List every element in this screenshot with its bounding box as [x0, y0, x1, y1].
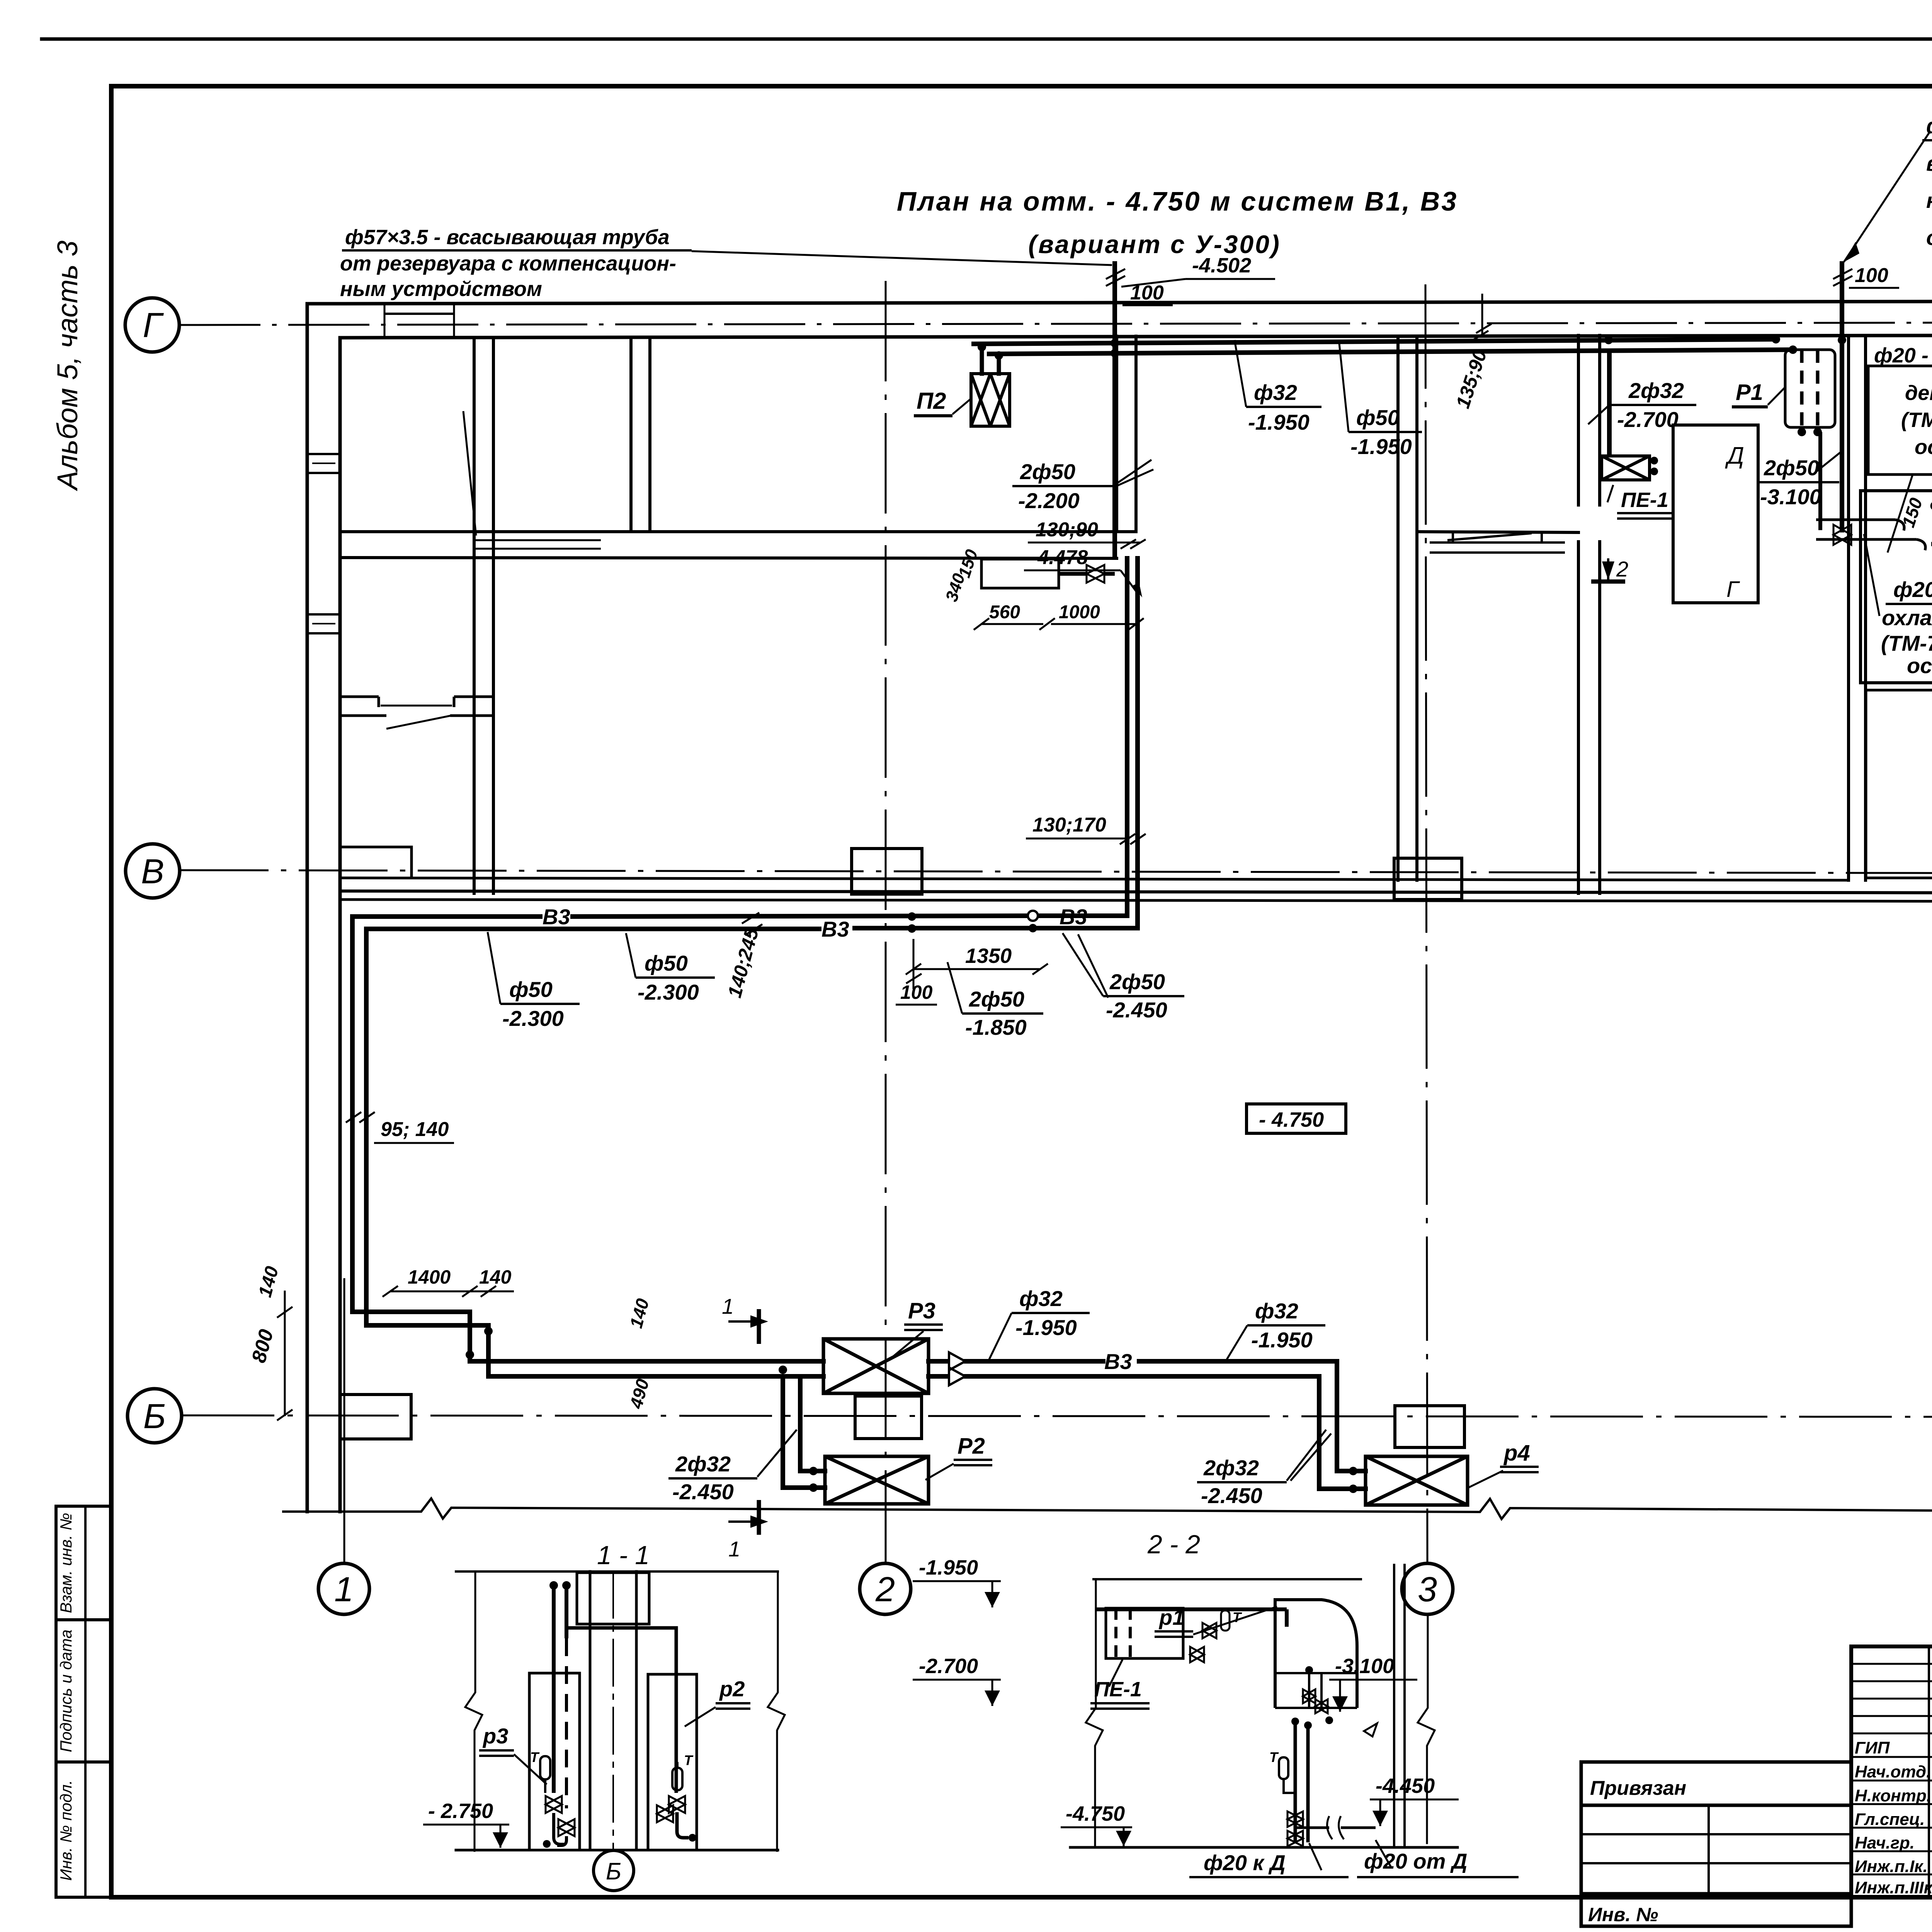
section marker 2 lower [1591, 558, 1625, 582]
svg-text:2ф32: 2ф32 [675, 1452, 731, 1476]
staff rows [1851, 1756, 1932, 1758]
left dim line with break [465, 1571, 482, 1851]
column on left wall at Б [340, 1395, 411, 1439]
svg-text:В3: В3 [821, 917, 849, 941]
left margin inventory table [56, 1506, 111, 1897]
svg-text:на рельеф - 2.500 с компенсаци: на рельеф - 2.500 с компенсаци- [1926, 188, 1932, 213]
svg-text:План на отм. - 4.750 м систем: План на отм. - 4.750 м систем В1, В3 [897, 186, 1458, 216]
door swing a2 [386, 716, 451, 729]
svg-text:140: 140 [479, 1266, 512, 1288]
svg-text:В3: В3 [1104, 1349, 1132, 1374]
leader to right riser [1844, 131, 1930, 262]
axis bubble В [126, 844, 180, 898]
svg-text:Инж.п.Iк.: Инж.п.Iк. [1855, 1857, 1928, 1876]
axis bubble 3 [1402, 1563, 1453, 1614]
P4 feed risers [1337, 1361, 1366, 1471]
svg-text:(ТМ-7, альбом 7): (ТМ-7, альбом 7) [1881, 631, 1932, 655]
svg-text:Н.контр.: Н.контр. [1855, 1786, 1931, 1805]
window detail in bottom wall of room a [463, 411, 601, 549]
svg-text:1: 1 [728, 1537, 740, 1561]
svg-text:Г: Г [1726, 577, 1740, 602]
svg-text:-4.502: -4.502 [1192, 254, 1251, 277]
bottom break line of plan [282, 1498, 1932, 1520]
svg-text:2ф50: 2ф50 [1109, 969, 1165, 994]
detail near riser bottom [981, 559, 1115, 588]
svg-text:ф50: ф50 [1356, 405, 1400, 430]
column axis 3 / Б [1395, 1406, 1464, 1447]
pipe down from P1 [1818, 432, 1822, 530]
svg-text:Р3: Р3 [908, 1298, 935, 1323]
svg-text:Привязан: Привязан [1590, 1777, 1686, 1799]
left wall line with break [1086, 1579, 1103, 1847]
svg-text:дения дизеля: дения дизеля [1905, 381, 1932, 405]
svg-text:-4.750: -4.750 [1066, 1802, 1125, 1825]
svg-text:-1.950: -1.950 [1350, 434, 1412, 459]
axis bubble 1 [318, 1563, 369, 1614]
svg-text:ПЕ-1: ПЕ-1 [1094, 1678, 1142, 1701]
svg-text:Р2: Р2 [957, 1434, 985, 1459]
svg-text:ось - 4.450: ось - 4.450 [1915, 435, 1932, 459]
svg-text:2ф50: 2ф50 [1020, 459, 1075, 484]
svg-text:Нач.отд.: Нач.отд. [1855, 1762, 1931, 1781]
svg-text:-1.950: -1.950 [1251, 1328, 1313, 1352]
svg-text:Инв. №: Инв. № [1588, 1904, 1658, 1925]
axis bubble Б [128, 1389, 182, 1443]
window sill in top wall room a [384, 304, 454, 338]
svg-text:-1.950: -1.950 [919, 1556, 978, 1579]
B3 pipe A left riser down [350, 917, 355, 1312]
-4.750 boxed level mark [1247, 1104, 1346, 1133]
svg-text:100: 100 [1855, 264, 1888, 287]
svg-text:В: В [141, 852, 164, 891]
riser pipe B1 at axis2 area [1112, 264, 1117, 558]
left T thermometer [540, 1756, 550, 1793]
B3 pipe B riser up [1135, 558, 1140, 928]
PE-1 unit section [1106, 1608, 1183, 1658]
svg-text:1: 1 [722, 1294, 734, 1318]
svg-text:-2.300: -2.300 [638, 980, 699, 1004]
section marker 1 bottom [728, 1500, 759, 1535]
svg-text:Г: Г [143, 306, 164, 345]
svg-text:от резервуара с компенсацион-: от резервуара с компенсацион- [340, 252, 676, 275]
partition wall b [629, 338, 633, 532]
svg-text:р3: р3 [482, 1724, 508, 1748]
ticks on risers near 130 [1121, 539, 1146, 549]
P2 unit stub 2 [997, 356, 1001, 374]
pipes down from tank [1295, 1723, 1308, 1842]
svg-text:ным устройством: ным устройством [340, 277, 542, 301]
partition wall a [473, 338, 476, 893]
floor line [456, 1849, 778, 1852]
svg-text:-2.450: -2.450 [672, 1480, 734, 1504]
svg-text:в дождевую канализацию или: в дождевую канализацию или [1926, 151, 1932, 175]
svg-text:- 2.750: - 2.750 [428, 1799, 493, 1823]
svg-text:Т: Т [530, 1749, 540, 1765]
svg-text:ГИП: ГИП [1855, 1738, 1890, 1757]
left wall inner face [338, 338, 342, 1512]
right wall double [1393, 1565, 1395, 1847]
left valves [546, 1796, 575, 1845]
svg-text:Б: Б [606, 1858, 621, 1885]
left wall outer face [306, 304, 309, 1512]
svg-text:онным устройством: онным устройством [1926, 225, 1932, 250]
svg-text:Нач.гр.: Нач.гр. [1855, 1833, 1915, 1852]
P2 unit stub 1 [980, 348, 984, 374]
valves on down pipes [1287, 1811, 1303, 1846]
svg-text:Взам. инв. №: Взам. инв. № [57, 1513, 75, 1613]
staff table thin top rows [1851, 1663, 1932, 1665]
leader inside box [1888, 474, 1913, 553]
B3 pipe A bottom jog [352, 1312, 823, 1361]
svg-text:ф20 от Д: ф20 от Д [1364, 1849, 1467, 1873]
right dim line with break [768, 1571, 785, 1851]
svg-text:ф50: ф50 [645, 951, 688, 975]
svg-text:2ф50: 2ф50 [969, 987, 1024, 1011]
annotation box on uzel okhl [1868, 366, 1932, 474]
svg-text:-1.950: -1.950 [1015, 1315, 1077, 1340]
pump P2 [825, 1456, 929, 1504]
svg-text:ПЕ-1: ПЕ-1 [1621, 488, 1668, 512]
section marker 2 upper [1931, 544, 1932, 571]
svg-text:Гл.спец.: Гл.спец. [1855, 1810, 1925, 1829]
column axis 2 / Б [855, 1396, 922, 1439]
svg-text:-3.100: -3.100 [1760, 485, 1821, 509]
svg-text:В3: В3 [1060, 905, 1087, 929]
column lines [589, 1571, 592, 1850]
axis 3 line [1425, 284, 1427, 1563]
sheet outer top edge [42, 37, 1932, 41]
pump P3 [823, 1339, 929, 1393]
window marks in left wall [307, 454, 340, 633]
right dim line [1418, 1615, 1435, 1843]
svg-text:р2: р2 [719, 1677, 745, 1701]
top wall outer face [336, 301, 1932, 304]
ceiling line [1094, 1578, 1361, 1580]
svg-text:-2.450: -2.450 [1201, 1483, 1262, 1508]
svg-text:Т: Т [684, 1752, 694, 1768]
svg-text:130;170: 130;170 [1032, 814, 1106, 836]
svg-text:Альбом 5, часть 3: Альбом 5, часть 3 [51, 240, 83, 491]
axis Б line [182, 1415, 1932, 1417]
svg-text:В3: В3 [543, 905, 570, 929]
section 1-1 axis bubble Б [594, 1850, 634, 1891]
leader to riser [692, 251, 1112, 265]
axis bubble Г [125, 298, 179, 352]
svg-text:2: 2 [875, 1570, 895, 1609]
interior wall with door room a2 [340, 697, 493, 729]
B3 after P3 pipe A [929, 1359, 1337, 1364]
svg-text:ф20 - от узла: ф20 - от узла [1893, 577, 1932, 602]
svg-text:-1.950: -1.950 [1248, 410, 1310, 434]
svg-text:1000: 1000 [1059, 602, 1100, 622]
foundation beam box [577, 1573, 649, 1624]
floor line [1070, 1846, 1458, 1849]
svg-text:-2.300: -2.300 [502, 1006, 564, 1031]
wall notch near axis 1 [340, 847, 412, 878]
PE-1 valves [1190, 1611, 1230, 1662]
svg-text:ф50: ф50 [509, 977, 553, 1002]
right T thermometer [672, 1762, 682, 1790]
svg-text:-2.700: -2.700 [1617, 407, 1679, 432]
svg-text:2ф32: 2ф32 [1628, 378, 1684, 403]
section marker 1 top [728, 1309, 759, 1344]
svg-text:Подпись и дата: Подпись и дата [57, 1629, 75, 1752]
junction dots [978, 335, 1846, 360]
svg-text:1: 1 [334, 1570, 354, 1609]
B3 pipe A upper horizontal [352, 916, 1127, 917]
column axis 2 / В [852, 849, 922, 894]
svg-text:2 - 2: 2 - 2 [1147, 1530, 1200, 1559]
svg-text:100: 100 [900, 981, 933, 1003]
break tick on riser at top [1106, 269, 1852, 286]
column axis dashdot [612, 1571, 614, 1850]
svg-text:Д: Д [1725, 442, 1744, 469]
svg-text:-2.700: -2.700 [919, 1655, 978, 1678]
svg-text:р1: р1 [1158, 1605, 1184, 1629]
P1 internal pump symbols [1303, 1673, 1328, 1713]
P1 tank section [1275, 1600, 1357, 1708]
level connector at -4.450 [1295, 1827, 1376, 1829]
diesel room Д [1673, 425, 1758, 603]
svg-text:ф32: ф32 [1254, 380, 1297, 405]
privyazan table [1581, 1762, 1851, 1926]
B3 after P3 pipe B [929, 1374, 1319, 1379]
svg-text:560: 560 [989, 602, 1020, 622]
second room below [1866, 690, 1932, 878]
svg-text:ось - 4.450: ось - 4.450 [1907, 653, 1932, 678]
axis В line [180, 870, 1932, 874]
wall on axis B top face left segment [340, 878, 1849, 880]
svg-text:Т: Т [1233, 1609, 1242, 1625]
PE-1 unit [1602, 456, 1650, 480]
svg-text:(ТМ-7, альбом 7): (ТМ-7, альбом 7) [1901, 408, 1932, 432]
svg-text:3: 3 [1418, 1570, 1437, 1609]
top band bottom left block [340, 530, 1136, 533]
svg-text:Р1: Р1 [1736, 380, 1763, 405]
pipe at -1.950 into tank [1097, 1607, 1287, 1611]
axis Г line [179, 322, 1932, 325]
window detail room d bottom [1430, 532, 1565, 553]
valve cluster at -3.100 [1816, 520, 1925, 550]
left pedestal [529, 1673, 580, 1850]
partition wall d [1396, 336, 1400, 880]
svg-text:ф20 - на узел охлаж-: ф20 - на узел охлаж- [1874, 344, 1932, 367]
right valves [657, 1796, 685, 1822]
svg-text:Т: Т [1269, 1749, 1279, 1765]
partition wall f double [1847, 335, 1850, 880]
svg-text:1 - 1: 1 - 1 [597, 1541, 650, 1570]
svg-text:ф32: ф32 [1255, 1299, 1298, 1323]
svg-text:95; 140: 95; 140 [381, 1118, 449, 1141]
B3 pipe B bottom jog [366, 1325, 823, 1376]
svg-text:Инж.п.IIIк: Инж.п.IIIк [1855, 1878, 1932, 1897]
svg-text:130;90: 130;90 [1036, 519, 1098, 541]
leader to valve cluster [1864, 534, 1879, 616]
top wall inner face [340, 335, 1932, 338]
svg-text:-1.850: -1.850 [965, 1015, 1027, 1039]
flow arrows after P3 [949, 1352, 965, 1385]
svg-text:2: 2 [1616, 557, 1628, 581]
right pedestal [648, 1674, 697, 1850]
svg-text:1350: 1350 [965, 944, 1012, 968]
T on pipe [1279, 1757, 1295, 1793]
B3 pipe B lower horizontal [366, 928, 1138, 929]
svg-text:-2.450: -2.450 [1106, 998, 1167, 1022]
svg-text:охлаждения дизеля: охлаждения дизеля [1882, 605, 1932, 630]
svg-text:ф32: ф32 [1019, 1286, 1063, 1311]
svg-text:ф20 к Д: ф20 к Д [1204, 1850, 1286, 1875]
section pipes left [554, 1587, 566, 1808]
svg-text:2ф50: 2ф50 [1764, 456, 1819, 480]
svg-text:-4.450: -4.450 [1376, 1774, 1435, 1798]
left wall top joint [307, 302, 336, 306]
svg-text:р4: р4 [1503, 1440, 1530, 1466]
svg-text:-3.100: -3.100 [1335, 1655, 1394, 1678]
P2 feed risers [800, 1376, 825, 1471]
tall room with annotation [1861, 491, 1932, 683]
axis bubble 2 [860, 1563, 911, 1614]
axis 1 line [344, 1278, 345, 1563]
top band bottom room d [1417, 532, 1578, 532]
svg-text:-2.200: -2.200 [1018, 488, 1080, 513]
pump P4 [1366, 1456, 1468, 1505]
svg-text:П2: П2 [917, 388, 946, 414]
partition wall e [1577, 335, 1580, 893]
partition wall c [1115, 336, 1118, 532]
staff columns [1928, 1646, 1930, 1897]
staff table outer [1851, 1646, 1932, 1897]
svg-text:Б: Б [143, 1397, 166, 1436]
axis 2 line [885, 281, 887, 1563]
pipe 2f50 lower run along top wall [989, 350, 1793, 354]
P1 unit dashed assembly [1785, 350, 1835, 429]
ventilation unit P2 (plan) [971, 374, 1010, 426]
wall on axis B bottom face [340, 891, 1932, 893]
B3 pipe A riser up [1125, 558, 1129, 916]
open dot on pipe A [1028, 911, 1038, 921]
svg-text:1400: 1400 [408, 1266, 451, 1288]
top level line [456, 1570, 778, 1573]
svg-text:- 4.750: - 4.750 [1259, 1108, 1324, 1131]
PE-1 riser [1607, 351, 1612, 456]
right pedestal pipes [566, 1628, 689, 1838]
B3 pipe B left riser down [364, 929, 369, 1325]
svg-text:2ф32: 2ф32 [1203, 1456, 1259, 1480]
riser pipe right [1840, 264, 1844, 530]
pipe 2f50 upper run along top wall [974, 339, 1776, 344]
svg-text:Инв. № подл.: Инв. № подл. [57, 1780, 75, 1881]
column axis 3 / В [1394, 858, 1462, 900]
svg-text:ф57×3.5 - всасывающая труба: ф57×3.5 - всасывающая труба [345, 226, 670, 249]
